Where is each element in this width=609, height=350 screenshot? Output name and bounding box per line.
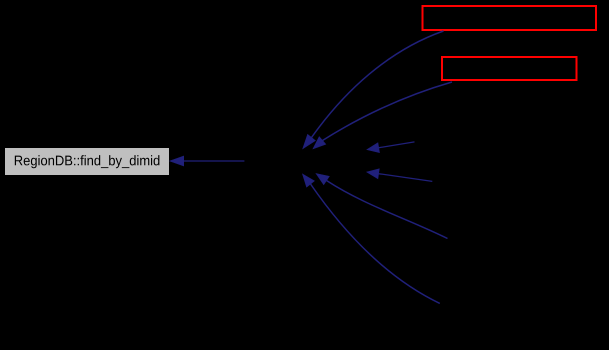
edge from red box 2 (C) bbox=[313, 82, 452, 149]
edge to RegionDB::find_by_dimid (A) bbox=[170, 156, 245, 166]
node RegionDB::find_by_dimid (current node, gray fill) bbox=[5, 148, 170, 176]
edge from hidden bottom node (G) bbox=[303, 174, 440, 303]
edge from hidden lower-right node (F) bbox=[316, 174, 448, 239]
edge from hidden right node 2 (E) bbox=[367, 169, 433, 182]
edge from red box 1 (B) bbox=[303, 31, 444, 149]
node red box 1 (caller, truncated, label hidden) bbox=[423, 6, 597, 30]
edge from hidden right node 1 (D) bbox=[367, 142, 415, 153]
node red box 2 (caller, truncated, label hidden) bbox=[442, 57, 577, 80]
